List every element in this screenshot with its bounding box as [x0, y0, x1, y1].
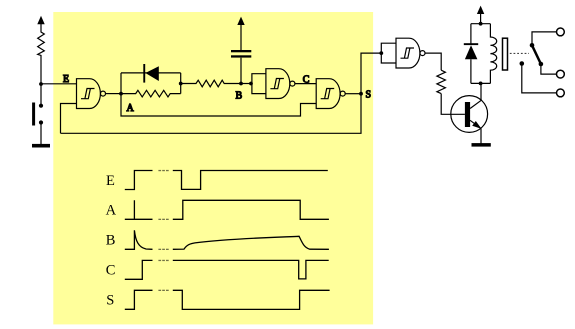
terminal 1 — [557, 28, 565, 36]
svg-text:A: A — [127, 103, 135, 114]
gap dots A — [158, 219, 161, 220]
wire capacitor to power arrow — [240, 25, 242, 51]
svg-text:B: B — [106, 233, 116, 249]
wire node B up to capacitor — [240, 58, 242, 84]
terminal 2 — [557, 70, 565, 78]
op-amp U2 NAND schmitt gate 2 — [266, 69, 295, 99]
svg-text:B: B — [236, 90, 243, 101]
terminal 3 — [557, 89, 565, 97]
relay coil L1 — [490, 24, 496, 84]
relay actuation dashed link — [510, 52, 529, 54]
power supply arrow (relay, +V) — [477, 6, 484, 24]
ground (emitter) — [472, 143, 491, 147]
transistor Q1 (NPN) — [451, 96, 488, 133]
waveform A — [125, 200, 329, 219]
parallel block top rail — [121, 72, 181, 74]
wire node to push button — [40, 84, 42, 106]
gate U1 feedback stub — [61, 104, 77, 134]
wire U2 output (node C) to gate U3 — [295, 83, 316, 85]
svg-text:E: E — [106, 173, 115, 189]
collector wire up to relay rail — [480, 83, 482, 100]
A net wire to U3 lower input — [121, 94, 316, 116]
wire U3 output to node S — [345, 93, 361, 95]
waveform B — [125, 230, 329, 249]
resistor R4 (base resistor, vertical) — [437, 70, 446, 93]
S feedback wire to U1 (bottom) — [61, 94, 362, 134]
flyback diode D2 branch — [464, 24, 478, 84]
capacitor C1 — [231, 50, 251, 58]
wire contact to terminal 2 — [541, 64, 557, 74]
relay bottom rail — [471, 82, 491, 84]
waveform S — [125, 290, 330, 309]
wire button to ground — [40, 123, 42, 145]
relay switch armature — [520, 43, 544, 66]
svg-text:A: A — [106, 203, 117, 219]
wire R1 to node E — [40, 56, 42, 84]
push button S1 — [32, 103, 43, 126]
gate U4 tied inputs bracket — [381, 43, 396, 63]
wire contact to terminal 3 — [522, 64, 557, 93]
relay top rail — [471, 23, 491, 25]
node after parallel block — [179, 82, 183, 86]
gap dots B — [158, 249, 161, 250]
wire R4 to transistor base — [441, 94, 465, 115]
ground (left) — [32, 144, 50, 148]
gate U2 tied inputs bracket — [252, 74, 266, 94]
power supply arrow (left, +V) — [37, 16, 44, 31]
wire pole to terminal 1 — [532, 32, 557, 45]
node S junction — [359, 92, 363, 96]
waveform E — [125, 171, 328, 190]
parallel block right vertical — [180, 73, 182, 94]
op-amp U3 NAND schmitt gate 3 — [316, 79, 345, 109]
svg-text:S: S — [366, 90, 372, 101]
op-amp U1 NAND schmitt gate 1 — [77, 79, 106, 109]
node A junction — [119, 92, 123, 96]
S wire up to gate U4 — [361, 53, 381, 94]
relay core — [503, 38, 508, 70]
resistor R2 (horizontal, in parallel with D1) — [121, 90, 181, 97]
yellow highlight panel — [53, 12, 373, 324]
diode D1 — [143, 64, 159, 83]
node B junction — [239, 82, 243, 86]
power supply arrow (capacitor, +V) — [237, 17, 244, 25]
op-amp U4 NAND schmitt gate 4 — [396, 38, 425, 68]
svg-text:C: C — [106, 263, 116, 279]
gap dots S — [158, 290, 161, 291]
gap dots E — [158, 170, 168, 291]
wire node E to gate U1 input — [41, 83, 77, 85]
gap dots C — [158, 260, 161, 261]
svg-text:E: E — [63, 74, 69, 85]
resistor R3 (horizontal to node B) — [181, 80, 241, 87]
wire U4 output to base resistor — [425, 53, 441, 70]
parallel block left vertical — [120, 73, 122, 94]
emitter wire down to ground — [480, 129, 482, 145]
svg-text:C: C — [303, 74, 310, 85]
node E junction — [39, 82, 43, 86]
waveform C — [125, 260, 329, 279]
svg-text:S: S — [106, 293, 114, 309]
timing diagram — [125, 171, 330, 310]
resistor R1 (pull-up, vertical) — [38, 31, 45, 56]
wire U1 output to node A — [106, 93, 122, 95]
wire node B to gate U2 — [241, 83, 252, 85]
